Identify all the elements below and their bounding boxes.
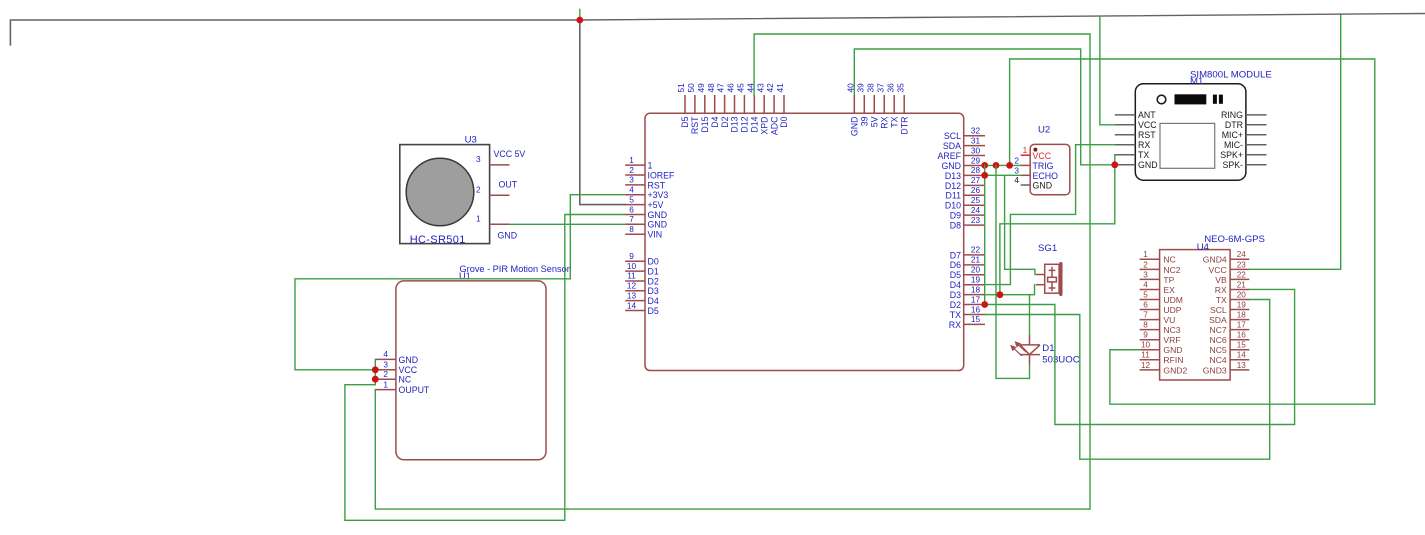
svg-text:VCC: VCC bbox=[1033, 151, 1052, 161]
svg-text:RX: RX bbox=[1138, 140, 1150, 150]
svg-text:8: 8 bbox=[1143, 321, 1148, 330]
svg-text:10: 10 bbox=[1141, 341, 1151, 350]
U1 pin 4 (GND) stub bbox=[375, 358, 396, 360]
wire U4 VCC pin23 from top rail bbox=[1249, 14, 1340, 269]
U4 pin 21 (RX) stub bbox=[1230, 288, 1249, 290]
svg-text:20: 20 bbox=[971, 265, 981, 275]
svg-text:12: 12 bbox=[1141, 361, 1151, 370]
M1 pin MIC+ stub right bbox=[1246, 134, 1267, 136]
wire Arduino pin29 GND to U2 TRIG bbox=[985, 164, 1021, 166]
U4 pin 16 (NC6) stub bbox=[1230, 339, 1249, 341]
wire SIM800L VCC from top rail bbox=[1100, 16, 1115, 125]
wire Arduino pin17 D2 to U4 RX pin21 bbox=[985, 289, 1295, 424]
svg-text:SPK+: SPK+ bbox=[1220, 150, 1243, 160]
junction U1 VCC bbox=[372, 366, 379, 373]
svg-text:13: 13 bbox=[1237, 361, 1247, 370]
svg-text:XPD: XPD bbox=[759, 117, 769, 135]
pin 38 (5V) stub, Arduino top bbox=[873, 95, 875, 113]
pin 25 (D10) stub, Arduino right bbox=[964, 204, 985, 206]
svg-text:GND: GND bbox=[1138, 160, 1158, 170]
M1 pin RING stub right bbox=[1246, 114, 1267, 116]
svg-text:7: 7 bbox=[1143, 311, 1148, 320]
svg-text:GND: GND bbox=[399, 355, 419, 365]
svg-text:D0: D0 bbox=[648, 257, 659, 267]
svg-text:D4: D4 bbox=[710, 116, 720, 127]
M1 pin VCC stub left bbox=[1115, 124, 1136, 126]
svg-text:1: 1 bbox=[1023, 145, 1028, 155]
ultrasonic module U2 body bbox=[1030, 144, 1070, 194]
svg-text:11: 11 bbox=[1141, 351, 1150, 360]
pin 28 (D13) stub, Arduino right bbox=[964, 174, 985, 176]
M1 pin RST stub left bbox=[1115, 134, 1136, 136]
pin 40 (GND) stub, Arduino top bbox=[853, 95, 855, 113]
svg-text:VB: VB bbox=[1215, 275, 1227, 285]
svg-text:2: 2 bbox=[1014, 156, 1019, 166]
svg-text:27: 27 bbox=[971, 175, 981, 185]
svg-text:37: 37 bbox=[875, 83, 885, 93]
wire Arduino pin19 D4 to SIM800L RX bbox=[985, 145, 1115, 285]
svg-text:NEO-6M-GPS: NEO-6M-GPS bbox=[1204, 234, 1265, 245]
svg-text:32: 32 bbox=[971, 126, 981, 136]
svg-text:DTR: DTR bbox=[899, 117, 909, 135]
svg-text:NC: NC bbox=[399, 375, 412, 385]
svg-text:GND4: GND4 bbox=[1203, 255, 1227, 265]
svg-text:Grove - PIR Motion Sensor: Grove - PIR Motion Sensor bbox=[460, 264, 570, 274]
pin 46 (D13) stub, Arduino top bbox=[734, 95, 736, 113]
wire Arduino pin28 D13 to U2 ECHO bbox=[985, 174, 1021, 176]
pin 2 (IOREF) stub, Arduino left bbox=[625, 174, 645, 176]
svg-text:M1: M1 bbox=[1190, 76, 1203, 87]
svg-text:GND: GND bbox=[648, 220, 668, 230]
U4 pin 12 (GND2) stub bbox=[1140, 369, 1160, 371]
svg-text:3: 3 bbox=[629, 175, 634, 185]
pin 11 (D2) stub, Arduino left bbox=[625, 280, 645, 282]
U4 pin 13 (GND3) stub bbox=[1230, 369, 1249, 371]
svg-text:12: 12 bbox=[627, 281, 637, 291]
svg-text:19: 19 bbox=[971, 274, 981, 284]
M1 pin SPK- stub right bbox=[1246, 164, 1267, 166]
U4 pin 10 (GND) stub bbox=[1140, 349, 1160, 351]
svg-text:18: 18 bbox=[971, 284, 981, 294]
pin 31 (SDA) stub, Arduino right bbox=[964, 145, 985, 147]
svg-text:D5: D5 bbox=[950, 270, 961, 280]
pin 42 (ADC) stub, Arduino top bbox=[773, 95, 775, 113]
wire U3 GND to Arduino pin7 GND bbox=[510, 223, 626, 225]
svg-text:51: 51 bbox=[676, 83, 686, 93]
svg-text:49: 49 bbox=[696, 83, 706, 93]
U4 pin 1 (NC) stub bbox=[1140, 258, 1160, 260]
wire GND net top loop to U4 pin10 bbox=[1010, 59, 1375, 404]
svg-text:21: 21 bbox=[1237, 280, 1247, 289]
svg-text:D4: D4 bbox=[648, 296, 659, 306]
svg-text:14: 14 bbox=[1237, 351, 1247, 360]
svg-text:D12: D12 bbox=[945, 181, 961, 191]
svg-text:50: 50 bbox=[686, 83, 696, 93]
svg-text:D13: D13 bbox=[730, 116, 740, 132]
mcu module (Arduino) body outline bbox=[645, 113, 964, 370]
U2 pin 3 (ECHO) stub bbox=[1021, 174, 1030, 176]
buzzer SG1 body bbox=[1036, 264, 1059, 293]
pin 32 (SCL) stub, Arduino right bbox=[964, 135, 985, 137]
svg-text:GND: GND bbox=[1033, 181, 1053, 191]
svg-text:503UOC: 503UOC bbox=[1042, 354, 1079, 365]
pin 23 (D8) stub, Arduino right bbox=[964, 224, 985, 226]
U3 pin 2 (OUT) stub bbox=[490, 194, 510, 196]
svg-text:NC5: NC5 bbox=[1209, 345, 1226, 355]
svg-text:8: 8 bbox=[629, 224, 634, 234]
svg-text:U4: U4 bbox=[1197, 242, 1210, 253]
svg-text:4: 4 bbox=[1143, 280, 1148, 289]
pin 39 (39) stub, Arduino top bbox=[863, 95, 865, 113]
wire U1 OUPUT to Arduino pin44 long loop bbox=[375, 34, 1090, 509]
M1 pin GND stub left bbox=[1115, 164, 1136, 166]
svg-text:17: 17 bbox=[1237, 321, 1247, 330]
U4 pin 22 (VB) stub bbox=[1230, 278, 1249, 280]
Grove PIR motion sensor U1 body bbox=[396, 281, 546, 460]
svg-text:1: 1 bbox=[648, 161, 653, 171]
svg-text:D15: D15 bbox=[700, 116, 710, 132]
svg-text:1: 1 bbox=[629, 155, 634, 165]
pin 15 (RX) stub, Arduino right bbox=[964, 323, 985, 325]
U4 pin 7 (VU) stub bbox=[1140, 319, 1160, 321]
svg-text:4: 4 bbox=[629, 185, 634, 195]
pin 51 (D5) stub, Arduino top bbox=[684, 95, 686, 113]
pin 24 (D9) stub, Arduino right bbox=[964, 214, 985, 216]
svg-text:D12: D12 bbox=[740, 116, 750, 132]
U4 pin 14 (NC4) stub bbox=[1230, 359, 1249, 361]
U1 pin 3 (VCC) stub bbox=[375, 369, 396, 371]
svg-text:TP: TP bbox=[1163, 275, 1174, 285]
junction pin29 top branch bbox=[1006, 162, 1013, 169]
svg-text:VRF: VRF bbox=[1163, 335, 1180, 345]
svg-text:SG1: SG1 bbox=[1038, 243, 1057, 254]
U4 pin 18 (SDA) stub bbox=[1230, 319, 1249, 321]
svg-text:VCC: VCC bbox=[1138, 120, 1157, 130]
svg-text:D10: D10 bbox=[945, 201, 961, 211]
svg-text:MIC-: MIC- bbox=[1224, 140, 1243, 150]
svg-text:ANT: ANT bbox=[1138, 110, 1156, 120]
svg-text:TX: TX bbox=[1216, 295, 1227, 305]
svg-text:D2: D2 bbox=[950, 300, 961, 310]
svg-text:41: 41 bbox=[775, 83, 785, 93]
svg-text:D6: D6 bbox=[950, 260, 961, 270]
wire GND to LED cathode bbox=[996, 165, 1030, 378]
svg-text:45: 45 bbox=[736, 83, 746, 93]
svg-text:IOREF: IOREF bbox=[648, 170, 676, 180]
pin 43 (XPD) stub, Arduino top bbox=[763, 95, 765, 113]
svg-text:OUPUT: OUPUT bbox=[399, 385, 430, 395]
svg-text:D2: D2 bbox=[720, 116, 730, 127]
svg-text:10: 10 bbox=[627, 261, 637, 271]
svg-text:NC4: NC4 bbox=[1209, 355, 1226, 365]
svg-text:D5: D5 bbox=[680, 116, 690, 127]
svg-text:18: 18 bbox=[1237, 311, 1247, 320]
U4 pin 2 (NC2) stub bbox=[1140, 268, 1160, 270]
pin 12 (D3) stub, Arduino left bbox=[625, 290, 645, 292]
U4 pin 5 (UDM) stub bbox=[1140, 299, 1160, 301]
pin 45 (D12) stub, Arduino top bbox=[743, 95, 745, 113]
svg-text:D8: D8 bbox=[950, 220, 961, 230]
GPS module U4 body bbox=[1160, 250, 1231, 380]
svg-text:31: 31 bbox=[971, 135, 981, 145]
pin 26 (D11) stub, Arduino right bbox=[964, 194, 985, 196]
svg-text:D7: D7 bbox=[950, 250, 961, 260]
LED D1 emission arrows bbox=[1011, 342, 1026, 356]
pin 6 (GND) stub, Arduino left bbox=[625, 214, 645, 216]
M1 inner rectangle bbox=[1160, 123, 1215, 168]
wire gray to Arduino +5V pin 5 bbox=[580, 20, 625, 205]
svg-text:D13: D13 bbox=[945, 171, 961, 181]
svg-text:1: 1 bbox=[1143, 250, 1148, 259]
junction pin29 LED branch bbox=[993, 162, 1000, 169]
svg-text:22: 22 bbox=[1237, 270, 1247, 279]
svg-text:EX: EX bbox=[1163, 285, 1175, 295]
svg-text:SPK-: SPK- bbox=[1222, 160, 1243, 170]
svg-text:VCC 5V: VCC 5V bbox=[494, 149, 526, 159]
svg-text:NC7: NC7 bbox=[1209, 325, 1226, 335]
junction pin17 bbox=[981, 301, 988, 308]
svg-text:U3: U3 bbox=[465, 135, 477, 146]
pin 49 (D15) stub, Arduino top bbox=[704, 95, 706, 113]
pin 44 (D14) stub, Arduino top bbox=[753, 95, 755, 113]
U2 origin mark bbox=[1033, 148, 1037, 152]
wire Arduino +3V3 to U1 VCC loop bbox=[295, 195, 625, 370]
svg-text:23: 23 bbox=[1237, 260, 1247, 269]
svg-text:21: 21 bbox=[971, 255, 981, 265]
wire U1 pin bus vertical bbox=[374, 359, 376, 384]
M1 antenna circle bbox=[1157, 95, 1166, 104]
svg-text:39: 39 bbox=[859, 116, 869, 126]
PIR sensor U3 HC-SR501 body bbox=[400, 145, 490, 244]
pin 10 (D1) stub, Arduino left bbox=[625, 270, 645, 272]
svg-text:+5V: +5V bbox=[648, 200, 664, 210]
svg-text:D3: D3 bbox=[950, 290, 961, 300]
svg-text:OUT: OUT bbox=[499, 179, 518, 189]
svg-text:MIC+: MIC+ bbox=[1222, 130, 1243, 140]
pin 17 (D2) stub, Arduino right bbox=[964, 304, 985, 306]
svg-text:D5: D5 bbox=[648, 306, 659, 316]
svg-text:28: 28 bbox=[971, 165, 981, 175]
svg-text:ADC: ADC bbox=[769, 116, 779, 135]
svg-text:3: 3 bbox=[1143, 270, 1148, 279]
pin 20 (D5) stub, Arduino right bbox=[964, 274, 985, 276]
svg-text:VIN: VIN bbox=[648, 230, 663, 240]
pin 27 (D12) stub, Arduino right bbox=[964, 184, 985, 186]
svg-text:5: 5 bbox=[629, 194, 634, 204]
svg-text:16: 16 bbox=[971, 304, 981, 314]
svg-text:42: 42 bbox=[765, 83, 775, 93]
pin 8 (VIN) stub, Arduino left bbox=[625, 233, 645, 235]
svg-text:D2: D2 bbox=[648, 276, 659, 286]
svg-text:UDM: UDM bbox=[1163, 295, 1183, 305]
pin 30 (AREF) stub, Arduino right bbox=[964, 155, 985, 157]
pin 41 (D0) stub, Arduino top bbox=[783, 95, 785, 113]
svg-text:6: 6 bbox=[629, 204, 634, 214]
pin 37 (RX) stub, Arduino top bbox=[883, 95, 885, 113]
svg-text:HC-SR501: HC-SR501 bbox=[410, 234, 466, 246]
U4 pin 20 (TX) stub bbox=[1230, 299, 1249, 301]
svg-text:D4: D4 bbox=[950, 280, 961, 290]
junction U1 NC bbox=[372, 376, 379, 383]
pin 50 (RST) stub, Arduino top bbox=[694, 95, 696, 113]
U4 pin 9 (VRF) stub bbox=[1140, 339, 1160, 341]
pin 35 (DTR) stub, Arduino top bbox=[903, 95, 905, 113]
svg-text:30: 30 bbox=[971, 145, 981, 155]
wire green stub at node bbox=[579, 9, 581, 20]
pin 19 (D4) stub, Arduino right bbox=[964, 284, 985, 286]
svg-text:SDA: SDA bbox=[1209, 315, 1227, 325]
M1 pin DTR stub right bbox=[1246, 124, 1267, 126]
wire SIM800L TX down to D3 net bbox=[1000, 155, 1115, 295]
M1 pin MIC- stub right bbox=[1246, 144, 1267, 146]
junction gray/green node bbox=[576, 17, 583, 24]
wire ECHO net to SG1 upper lead bbox=[1005, 175, 1035, 274]
svg-text:48: 48 bbox=[706, 83, 716, 93]
svg-text:1: 1 bbox=[383, 379, 388, 389]
M1 connector bars bbox=[1213, 95, 1217, 104]
U4 pin 15 (NC5) stub bbox=[1230, 349, 1249, 351]
svg-text:39: 39 bbox=[855, 83, 865, 93]
svg-text:UDP: UDP bbox=[1163, 305, 1181, 315]
svg-text:17: 17 bbox=[971, 294, 981, 304]
svg-text:11: 11 bbox=[627, 271, 636, 281]
svg-text:47: 47 bbox=[716, 83, 726, 93]
svg-text:19: 19 bbox=[1237, 300, 1247, 309]
svg-text:RX: RX bbox=[879, 116, 889, 128]
svg-text:22: 22 bbox=[971, 245, 981, 255]
svg-text:NC2: NC2 bbox=[1163, 265, 1180, 275]
wire LED anode up to D3 net bbox=[1029, 295, 1031, 335]
pin 47 (D2) stub, Arduino top bbox=[724, 95, 726, 113]
pin 48 (D4) stub, Arduino top bbox=[714, 95, 716, 113]
M1 pin SPK+ stub right bbox=[1246, 154, 1267, 156]
wire gray top horizontal bbox=[10, 20, 579, 45]
U4 pin 24 (GND4) stub bbox=[1230, 258, 1249, 260]
U1 pin 2 (NC) stub bbox=[375, 378, 396, 380]
pin 1 (1) stub, Arduino left bbox=[625, 164, 645, 166]
M1 pin ANT stub left bbox=[1115, 114, 1136, 116]
svg-text:2: 2 bbox=[383, 369, 388, 379]
pin 4 (+3V3) stub, Arduino left bbox=[625, 194, 645, 196]
svg-text:25: 25 bbox=[971, 195, 981, 205]
svg-text:GND: GND bbox=[648, 210, 668, 220]
svg-text:15: 15 bbox=[1237, 341, 1247, 350]
svg-text:1: 1 bbox=[476, 213, 481, 223]
svg-text:15: 15 bbox=[971, 314, 981, 324]
svg-text:GND: GND bbox=[1163, 345, 1182, 355]
wire Arduino pin18 D3 to SG1 lower lead bbox=[985, 285, 1035, 295]
svg-text:U2: U2 bbox=[1038, 125, 1050, 136]
svg-text:VU: VU bbox=[1163, 315, 1175, 325]
pin 21 (D6) stub, Arduino right bbox=[964, 264, 985, 266]
svg-text:D1: D1 bbox=[1042, 343, 1054, 354]
svg-text:D14: D14 bbox=[750, 116, 760, 132]
svg-text:16: 16 bbox=[1237, 331, 1247, 340]
svg-text:SDA: SDA bbox=[943, 141, 961, 151]
U4 pin 8 (NC3) stub bbox=[1140, 329, 1160, 331]
M1 pin RX stub left bbox=[1115, 144, 1136, 146]
U4 pin 11 (RFIN) stub bbox=[1140, 359, 1160, 361]
svg-text:+3V3: +3V3 bbox=[648, 190, 669, 200]
svg-text:29: 29 bbox=[971, 155, 981, 165]
buzzer SG1 right plate bbox=[1059, 262, 1062, 296]
svg-text:13: 13 bbox=[627, 290, 637, 300]
U4 pin 19 (SCL) stub bbox=[1230, 309, 1249, 311]
svg-text:46: 46 bbox=[726, 83, 736, 93]
wire Arduino pin40 to SIM800L GND bbox=[854, 49, 1115, 165]
junction SIM800L GND bbox=[1111, 161, 1118, 168]
wire vertical pin29 to pin17 row bbox=[984, 165, 986, 304]
svg-text:D11: D11 bbox=[946, 191, 962, 201]
svg-text:43: 43 bbox=[755, 83, 765, 93]
svg-text:7: 7 bbox=[629, 214, 634, 224]
svg-text:GND3: GND3 bbox=[1203, 365, 1227, 375]
svg-text:D9: D9 bbox=[950, 211, 961, 221]
svg-text:24: 24 bbox=[1237, 250, 1247, 259]
svg-text:RST: RST bbox=[1138, 130, 1156, 140]
svg-text:23: 23 bbox=[971, 215, 981, 225]
wire Arduino GND pin6 to U1 NC loop bbox=[345, 215, 625, 521]
wire gray diagonal to right edge bbox=[580, 14, 1425, 21]
pin 9 (D0) stub, Arduino left bbox=[625, 260, 645, 262]
pin 36 (TX) stub, Arduino top bbox=[893, 95, 895, 113]
LED D1 symbol bbox=[1020, 335, 1040, 364]
pin 3 (RST) stub, Arduino left bbox=[625, 184, 645, 186]
svg-text:RFIN: RFIN bbox=[1163, 355, 1183, 365]
U4 pin 6 (UDP) stub bbox=[1140, 309, 1160, 311]
svg-text:SCL: SCL bbox=[1210, 305, 1227, 315]
svg-text:TX: TX bbox=[889, 116, 899, 127]
svg-text:D3: D3 bbox=[648, 286, 659, 296]
junction pin29 bbox=[981, 162, 988, 169]
U4 pin 4 (EX) stub bbox=[1140, 288, 1160, 290]
svg-text:SCL: SCL bbox=[944, 131, 961, 141]
svg-text:NC: NC bbox=[1163, 255, 1175, 265]
svg-text:9: 9 bbox=[1143, 331, 1148, 340]
svg-text:GND2: GND2 bbox=[1163, 365, 1187, 375]
svg-text:RX: RX bbox=[949, 320, 961, 330]
svg-text:D1: D1 bbox=[648, 266, 659, 276]
svg-text:4: 4 bbox=[1014, 175, 1019, 185]
junction pin28 bbox=[981, 172, 988, 179]
pin 16 (TX) stub, Arduino right bbox=[964, 313, 985, 315]
pin 13 (D4) stub, Arduino left bbox=[625, 300, 645, 302]
U4 pin 23 (VCC) stub bbox=[1230, 268, 1249, 270]
svg-text:GND: GND bbox=[941, 161, 961, 171]
U4 pin 17 (NC7) stub bbox=[1230, 329, 1249, 331]
svg-text:RST: RST bbox=[690, 116, 700, 134]
pin 22 (D7) stub, Arduino right bbox=[964, 254, 985, 256]
svg-text:2: 2 bbox=[476, 184, 481, 194]
svg-text:5: 5 bbox=[1143, 290, 1148, 299]
svg-text:3: 3 bbox=[476, 154, 481, 164]
U3 lens circle bbox=[406, 158, 474, 226]
svg-text:RING: RING bbox=[1221, 110, 1243, 120]
svg-text:26: 26 bbox=[971, 185, 981, 195]
svg-text:NC6: NC6 bbox=[1209, 335, 1226, 345]
svg-text:VCC: VCC bbox=[1209, 265, 1227, 275]
U3 pin 1 (GND) stub bbox=[490, 223, 510, 225]
pin 29 (GND) stub, Arduino right bbox=[964, 164, 985, 166]
svg-text:RST: RST bbox=[648, 180, 666, 190]
svg-text:2: 2 bbox=[1143, 260, 1148, 269]
U2 pin 1 (VCC) stub bbox=[1021, 154, 1030, 156]
pin 18 (D3) stub, Arduino right bbox=[964, 294, 985, 296]
svg-text:36: 36 bbox=[885, 83, 895, 93]
svg-text:3: 3 bbox=[1014, 166, 1019, 176]
svg-text:4: 4 bbox=[383, 349, 388, 359]
svg-text:20: 20 bbox=[1237, 290, 1247, 299]
